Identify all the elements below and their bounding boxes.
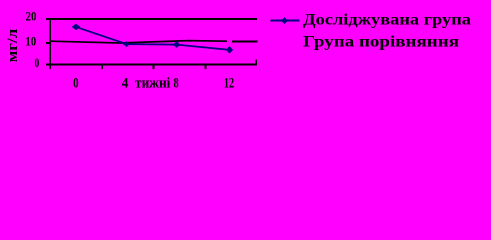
gridline y=20 — [50, 18, 257, 20]
chart background — [0, 0, 491, 102]
x-axis tick 3 — [204, 65, 206, 70]
series 1 marker P3 — [173, 41, 181, 48]
legend series 1 marker diamond — [281, 17, 288, 24]
series 1 line (Досліджувана група) — [76, 27, 230, 50]
y-axis tick 10 — [46, 42, 51, 44]
series 1 marker P1 — [72, 24, 81, 31]
y-axis tick 20 — [46, 18, 51, 20]
series 2 line right segment — [232, 41, 257, 43]
x-axis — [50, 63, 257, 65]
svg-text:Група порівняння: Група порівняння — [303, 33, 459, 50]
series 1 marker P2 — [123, 41, 131, 47]
svg-text:12: 12 — [224, 76, 234, 92]
svg-text:10: 10 — [25, 34, 36, 49]
y-axis — [49, 18, 51, 69]
series 2 line (Група порівняння) — [51, 41, 227, 43]
x-axis tick 1 — [101, 65, 103, 70]
svg-text:мг/л: мг/л — [5, 28, 21, 62]
svg-text:тижні: тижні — [135, 76, 170, 92]
y-axis tick 0 — [46, 64, 51, 66]
svg-text:0: 0 — [73, 76, 79, 92]
series 1 marker P4 — [226, 46, 233, 54]
svg-text:4: 4 — [122, 76, 129, 92]
svg-text:8: 8 — [174, 76, 179, 92]
x-axis end stub up — [255, 59, 257, 64]
legend series 1 marker line — [271, 20, 300, 22]
svg-text:Досліджувана група: Досліджувана група — [303, 11, 471, 28]
svg-text:20: 20 — [26, 9, 37, 24]
x-axis tick 2 — [153, 65, 155, 70]
svg-text:0: 0 — [35, 55, 40, 70]
